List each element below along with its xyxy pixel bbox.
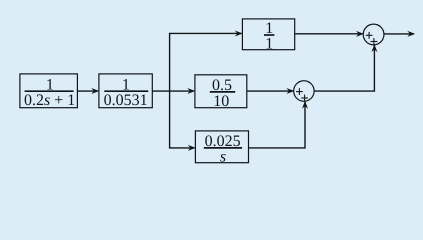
- svg-text:1: 1: [265, 20, 273, 37]
- S2 plus sign left: [296, 88, 303, 95]
- svg-text:10: 10: [213, 93, 229, 110]
- svg-text:0.2s + 1: 0.2s + 1: [24, 92, 75, 109]
- summer S2 lower circle: [294, 81, 315, 102]
- svg-text:0.5: 0.5: [212, 77, 232, 94]
- wire branch vertical: [169, 33, 171, 147]
- svg-text:s: s: [220, 149, 226, 166]
- svg-text:0.0531: 0.0531: [104, 92, 148, 109]
- block G4 1/1 top: [242, 19, 294, 50]
- wire branch to top block: [169, 32, 241, 34]
- block G2 1/0.0531: [99, 74, 152, 108]
- S2 plus sign bottom: [301, 95, 308, 102]
- wire lower summer to top summer (right then up): [314, 45, 374, 91]
- wire G5 to lower summer (right then up): [249, 102, 305, 148]
- svg-text:1: 1: [265, 35, 273, 52]
- svg-text:0.025: 0.025: [205, 133, 241, 150]
- summer S1 top circle: [363, 24, 384, 45]
- wire output from top summer: [384, 33, 414, 35]
- wire G1 to G2: [78, 90, 98, 92]
- block G5 0.025/s bottom: [195, 131, 248, 163]
- block G1 1/(0.2s+1): [20, 74, 78, 108]
- S1 plus sign left: [366, 32, 373, 39]
- S1 plus sign bottom: [371, 38, 378, 45]
- wire G4 to top summer: [295, 33, 363, 35]
- wire branch to bottom block: [169, 147, 194, 149]
- wire G2 to branch node and to G3: [152, 90, 193, 92]
- wire G3 to lower summer: [247, 90, 293, 92]
- block G3 0.5/10 middle: [195, 75, 247, 108]
